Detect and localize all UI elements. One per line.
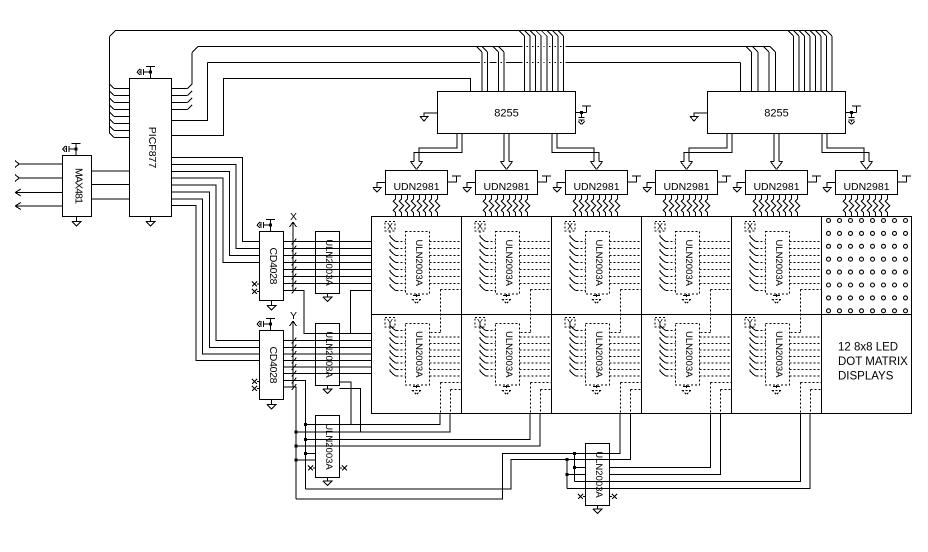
resistor network under UDN2981 #5 (8 leads) bbox=[753, 195, 800, 217]
dashed wire row1-to-row2 link in display cell bbox=[700, 290, 732, 333]
wire: ULN2003A #D output to display cell 5 column b bbox=[567, 414, 810, 489]
display cell internal driver ULN2003A (dashed) bbox=[586, 232, 610, 295]
LED column symbols and dashed wires bbox=[750, 324, 821, 376]
ground at CD4028 #2 bbox=[267, 400, 277, 410]
wire: ULN2003A #D output to display cell 4 column a bbox=[610, 414, 711, 468]
wire: 4-bit bus fan-down into 8255 #2 bbox=[746, 47, 776, 92]
svg-text:ULN2003A: ULN2003A bbox=[683, 331, 694, 378]
wire: PIC control line to 8255 #2 (third rail) bbox=[172, 62, 741, 121]
IC ULN2003A #A (X driver) bbox=[316, 232, 340, 294]
ground at MAX481 bbox=[72, 217, 82, 227]
ground at ULN2003A #C bbox=[323, 478, 332, 486]
display cell internal driver ULN2003A (dashed) bbox=[676, 324, 700, 386]
LED column symbols and dashed wires bbox=[660, 235, 731, 291]
IC 8255 programmable peripheral interface #2 bbox=[708, 92, 846, 134]
svg-text:ULN2003A: ULN2003A bbox=[323, 423, 334, 470]
wire: data bus left riser from PICF877 bbox=[110, 31, 116, 134]
LED matrix display cell: dashed label box [X] bbox=[745, 221, 755, 234]
ground at UDN2981 #5 bbox=[733, 183, 746, 193]
wire: Y row 8 drop to ULN2003A #C bbox=[284, 387, 297, 432]
IC UDN2981 source driver #3 bbox=[566, 171, 628, 195]
power symbol +5V with decoupling cap at PICF877 bbox=[137, 67, 155, 79]
dashed ground arrow of cell driver bbox=[772, 294, 781, 304]
ground at 8255 #2 bbox=[690, 113, 708, 121]
IC UDN2981 source driver #5 bbox=[746, 171, 808, 195]
power symbol at UDN2981 #1 bbox=[448, 176, 462, 182]
svg-text:ULN2003A: ULN2003A bbox=[413, 331, 424, 378]
resistor network under UDN2981 #6 (8 leads) bbox=[843, 195, 890, 217]
wire: data bus fan-down into 8255 #2 bbox=[788, 31, 832, 92]
IC 8255 programmable peripheral interface #1 bbox=[438, 92, 576, 134]
ground at ULN2003A #B bbox=[323, 386, 332, 394]
svg-text:UDN2981: UDN2981 bbox=[663, 181, 709, 193]
svg-text:X: X bbox=[567, 221, 573, 231]
svg-text:X: X bbox=[477, 221, 483, 231]
wire: RS-485 input B with arrowhead bbox=[15, 175, 63, 182]
svg-text:ULN2003A: ULN2003A bbox=[323, 331, 334, 378]
wire: 4-bit bus PIC to 8255s (second rail) bbox=[192, 46, 770, 84]
dashed ground arrow of cell driver bbox=[592, 294, 601, 304]
wire: MAX481 RO to PIC bbox=[92, 170, 130, 172]
dashed common wires leaving display cell bottom bbox=[700, 376, 732, 414]
wire: PICF877 left pin fan to data bus bbox=[110, 84, 130, 138]
wire: MAX481 DI to PIC bbox=[92, 198, 130, 200]
power symbol at UDN2981 #5 bbox=[808, 176, 822, 182]
power symbol at CD4028 #2 bbox=[257, 319, 275, 331]
svg-text:UDN2981: UDN2981 bbox=[843, 181, 889, 193]
node X: bus annotation with up arrow bbox=[290, 211, 298, 293]
LED matrix display cell: dashed label box [Y] bbox=[745, 317, 755, 330]
LED column symbols and dashed wires bbox=[570, 235, 641, 291]
svg-text:Y: Y bbox=[290, 310, 297, 322]
bus arrow 8255#2 port A to UDN2981 #4 bbox=[681, 134, 733, 170]
power symbol at UDN2981 #4 bbox=[718, 176, 732, 182]
display cell internal driver ULN2003A (dashed) bbox=[586, 324, 610, 386]
LED matrix display cell: dashed label box [X] bbox=[385, 221, 395, 234]
wire: ULN2003A #D output to display cell 3 column a bbox=[586, 414, 621, 454]
wire: ULN2003A #B extra output Z-bend to ULN2003A #C row b bbox=[340, 389, 361, 433]
ground at UDN2981 #6 bbox=[823, 183, 836, 193]
svg-text:X: X bbox=[387, 221, 393, 231]
bus arrow 8255#2 port B to UDN2981 #5 bbox=[771, 134, 783, 170]
LED column symbols and dashed wires bbox=[570, 324, 641, 376]
LED matrix display cell: dashed label box [X] bbox=[655, 221, 665, 234]
LED column symbols and dashed wires bbox=[390, 324, 461, 376]
ground at ULN2003A #D bbox=[593, 506, 602, 514]
IC UDN2981 source driver #4 bbox=[656, 171, 718, 195]
LED matrix display cell: dashed label box [Y] bbox=[475, 317, 485, 330]
wire: feeder column A into ULN2003A #C with junctions bbox=[304, 423, 316, 489]
IC ULN2003A #C (column driver left) bbox=[316, 416, 340, 478]
resistor network under UDN2981 #4 (8 leads) bbox=[663, 195, 710, 217]
power +5V with decoupling cap at 8255 #2 bbox=[846, 106, 862, 125]
wire: ULN2003A #C output to display cell 1 column b bbox=[296, 414, 450, 433]
svg-text:UDN2981: UDN2981 bbox=[393, 181, 439, 193]
node Y: bus annotation with up arrow bbox=[290, 310, 298, 390]
LED matrix display cell: dashed label box [X] bbox=[475, 221, 485, 234]
wire: Y row 7 drop to ULN2003A #C bbox=[284, 381, 306, 425]
dashed wire row1-to-row2 link in display cell bbox=[430, 290, 462, 333]
dashed wire row1-to-row2 link in display cell bbox=[520, 290, 552, 333]
svg-text:ULN2003A: ULN2003A bbox=[503, 240, 514, 287]
no-connect marks at CD4028 #1 bbox=[252, 282, 260, 295]
wire: X row 8 bypass below ULN2003A bbox=[284, 291, 372, 334]
dashed ground arrow of cell driver bbox=[502, 294, 511, 304]
display cell internal driver ULN2003A (dashed) bbox=[406, 324, 430, 386]
dashed ground arrow of cell driver bbox=[772, 385, 781, 395]
LED column symbols and dashed wires bbox=[480, 324, 551, 376]
svg-text:ULN2003A: ULN2003A bbox=[593, 451, 604, 498]
wire: RS-485 output B with left arrow bbox=[15, 203, 63, 210]
resistor network under UDN2981 #1 (8 leads) bbox=[393, 195, 440, 217]
IC ULN2003A #D (column driver right) bbox=[586, 444, 610, 506]
ground at UDN2981 #3 bbox=[553, 183, 566, 193]
dashed ground arrow of cell driver bbox=[682, 294, 691, 304]
ground at UDN2981 #1 bbox=[373, 183, 386, 193]
svg-text:MAX481: MAX481 bbox=[73, 168, 85, 204]
dashed ground arrow of cell driver bbox=[502, 385, 511, 395]
svg-text:X: X bbox=[290, 211, 297, 223]
12 8x8 LED dot-matrix display block outline bbox=[372, 217, 912, 414]
svg-text:UDN2981: UDN2981 bbox=[753, 181, 799, 193]
wire: MAX481 RE/DE to PIC bbox=[92, 184, 130, 186]
svg-text:X: X bbox=[657, 221, 663, 231]
display cell internal driver ULN2003A (dashed) bbox=[766, 324, 790, 386]
display cell internal driver ULN2003A (dashed) bbox=[676, 232, 700, 295]
IC PICF877 microcontroller bbox=[130, 79, 172, 217]
text label: 12 8x8 LED DOT MATRIX DISPLAYS bbox=[838, 342, 908, 383]
IC ULN2003A #B (Y driver) bbox=[316, 324, 340, 386]
dashed ground arrow of cell driver bbox=[592, 385, 601, 395]
svg-text:ULN2003A: ULN2003A bbox=[773, 240, 784, 287]
wire: bottom rail A to ULN2003A #D bbox=[306, 460, 568, 490]
ground at UDN2981 #4 bbox=[643, 183, 656, 193]
wire: ULN2003A #D output to display cell 4 column b bbox=[610, 414, 721, 475]
IC UDN2981 source driver #6 bbox=[836, 171, 898, 195]
svg-text:ULN2003A: ULN2003A bbox=[773, 331, 784, 378]
wire: PIC port lines to CD4028 #2 (BCD inputs) bbox=[172, 185, 260, 361]
power symbol at UDN2981 #3 bbox=[628, 176, 642, 182]
svg-text:CD4028: CD4028 bbox=[267, 347, 279, 384]
LED matrix display cell: dashed label box [Y] bbox=[655, 317, 665, 330]
svg-text:ULN2003A: ULN2003A bbox=[503, 331, 514, 378]
IC UDN2981 source driver #2 bbox=[476, 171, 538, 195]
svg-text:ULN2003A: ULN2003A bbox=[593, 240, 604, 287]
LED column symbols and dashed wires bbox=[480, 235, 551, 291]
svg-text:DOT MATRIX: DOT MATRIX bbox=[838, 356, 908, 368]
LED column symbols and dashed wires bbox=[390, 235, 461, 291]
svg-text:PICF877: PICF877 bbox=[146, 127, 158, 169]
svg-text:DISPLAYS: DISPLAYS bbox=[838, 371, 894, 383]
svg-text:X: X bbox=[747, 221, 753, 231]
bus arrow 8255#1 port B to UDN2981 #2 bbox=[501, 134, 513, 170]
no-connect marks at CD4028 #2 bbox=[252, 379, 260, 391]
svg-text:12 8x8 LED: 12 8x8 LED bbox=[838, 342, 898, 354]
power +5V with decoupling cap at 8255 #1 bbox=[576, 106, 592, 125]
power symbol +5V with decoupling cap at MAX481 bbox=[63, 144, 81, 156]
wire: ULN2003A #D output to display cell 5 column a bbox=[575, 414, 801, 482]
svg-text:ULN2003A: ULN2003A bbox=[323, 239, 334, 286]
IC CD4028 BCD decoder #1 (X) bbox=[260, 232, 284, 301]
IC UDN2981 source driver #1 bbox=[386, 171, 448, 195]
wire: 4-bit bus fan-down into 8255 #1 bbox=[477, 47, 505, 92]
display cell internal driver ULN2003A (dashed) bbox=[496, 232, 520, 295]
wire: X row lines CD4028#1 to display grid bbox=[284, 242, 372, 284]
ground at CD4028 #1 bbox=[267, 301, 277, 311]
power symbol at UDN2981 #2 bbox=[538, 176, 552, 182]
LED matrix display cell: dashed label box [Y] bbox=[385, 317, 395, 330]
resistor network under UDN2981 #3 (8 leads) bbox=[573, 195, 620, 217]
wire: RS-485 output A with left arrow bbox=[15, 189, 63, 196]
LED matrix display cell: dashed label box [X] bbox=[565, 221, 575, 234]
bus arrow 8255#2 port C to UDN2981 #6 bbox=[822, 134, 873, 170]
dashed common wires leaving display cell bottom bbox=[790, 376, 822, 414]
ground at UDN2981 #2 bbox=[463, 183, 476, 193]
resistor network under UDN2981 #2 (8 leads) bbox=[483, 195, 530, 217]
no-connect marks at ULN2003A #C bbox=[308, 466, 347, 471]
8x8 LED dot matrix face (circles) bbox=[827, 219, 908, 313]
display cell internal driver ULN2003A (dashed) bbox=[766, 232, 790, 295]
svg-text:CD4028: CD4028 bbox=[267, 248, 279, 285]
bus arrow 8255#1 port A to UDN2981 #1 bbox=[411, 134, 463, 170]
wire: feeder column B into ULN2003A #C with junctions bbox=[295, 431, 316, 500]
ground at ULN2003A #A bbox=[323, 294, 332, 302]
LED column symbols and dashed wires bbox=[660, 324, 731, 376]
wire: ULN2003A #B extra output Z-bend to ULN2003A #C row a bbox=[340, 382, 351, 425]
wire: bottom rail B to ULN2003A #D bbox=[296, 454, 575, 500]
ground at 8255 #1 bbox=[420, 113, 438, 121]
svg-text:UDN2981: UDN2981 bbox=[573, 181, 619, 193]
wire: ULN2003A #C output to display cell 1 column a bbox=[306, 414, 441, 425]
wire: PIC control line to 8255 #1 (fourth rail) bbox=[172, 79, 471, 136]
display cell internal driver ULN2003A (dashed) bbox=[496, 324, 520, 386]
dashed ground arrow of cell driver bbox=[412, 385, 421, 395]
power symbol at UDN2981 #6 bbox=[898, 176, 912, 182]
svg-text:8255: 8255 bbox=[494, 108, 518, 120]
wire: feeder column into ULN2003A #D (left pair B) with junctions bbox=[566, 458, 586, 489]
wire: PICF877 right pin fan to 4-bit bus bbox=[172, 84, 193, 110]
dashed wire row1-to-row2 link in display cell bbox=[790, 290, 822, 333]
svg-text:ULN2003A: ULN2003A bbox=[593, 331, 604, 378]
dashed common wires leaving display cell bottom bbox=[520, 376, 552, 414]
wire: ULN2003A #C output to display cell 2 column a bbox=[306, 414, 531, 440]
dashed ground arrow of cell driver bbox=[682, 385, 691, 395]
wire: Y row lines CD4028#2 to display grid bbox=[284, 341, 372, 374]
wire: PIC port lines to CD4028 #1 (BCD inputs) bbox=[172, 158, 260, 263]
display cell internal driver ULN2003A (dashed) bbox=[406, 232, 430, 295]
svg-text:ULN2003A: ULN2003A bbox=[683, 240, 694, 287]
wire: ULN2003A #C output to display cell 2 column b bbox=[296, 414, 540, 447]
power symbol at CD4028 #1 bbox=[257, 220, 275, 232]
svg-text:ULN2003A: ULN2003A bbox=[413, 240, 424, 287]
dashed wire row1-to-row2 link in display cell bbox=[610, 290, 642, 333]
LED matrix display cell: dashed label box [Y] bbox=[565, 317, 575, 330]
IC MAX481 (RS-485 transceiver) bbox=[63, 156, 92, 217]
wire: 8-bit data bus PIC to both 8255 (top rail) bbox=[116, 30, 827, 32]
IC CD4028 BCD decoder #2 (Y) bbox=[260, 331, 284, 400]
ground at PICF877 bbox=[146, 217, 156, 227]
svg-text:UDN2981: UDN2981 bbox=[483, 181, 529, 193]
no-connect marks at ULN2003A #D bbox=[578, 494, 617, 499]
svg-text:8255: 8255 bbox=[764, 108, 788, 120]
LED column symbols and dashed wires bbox=[750, 235, 821, 291]
wire: ULN2003A #D output to display cell 3 column b bbox=[586, 414, 631, 460]
dashed common wires leaving display cell bottom bbox=[610, 376, 642, 414]
dashed ground arrow of cell driver bbox=[412, 294, 421, 304]
wire: feeder column into ULN2003A #D (left pair A) with junctions bbox=[573, 452, 586, 482]
dashed common wires leaving display cell bottom bbox=[430, 376, 462, 414]
wire: RS-485 input A with arrowhead bbox=[15, 161, 63, 168]
wire: data bus fan-down into 8255 #1 bbox=[519, 31, 563, 92]
bus arrow 8255#1 port C to UDN2981 #3 bbox=[552, 134, 603, 170]
